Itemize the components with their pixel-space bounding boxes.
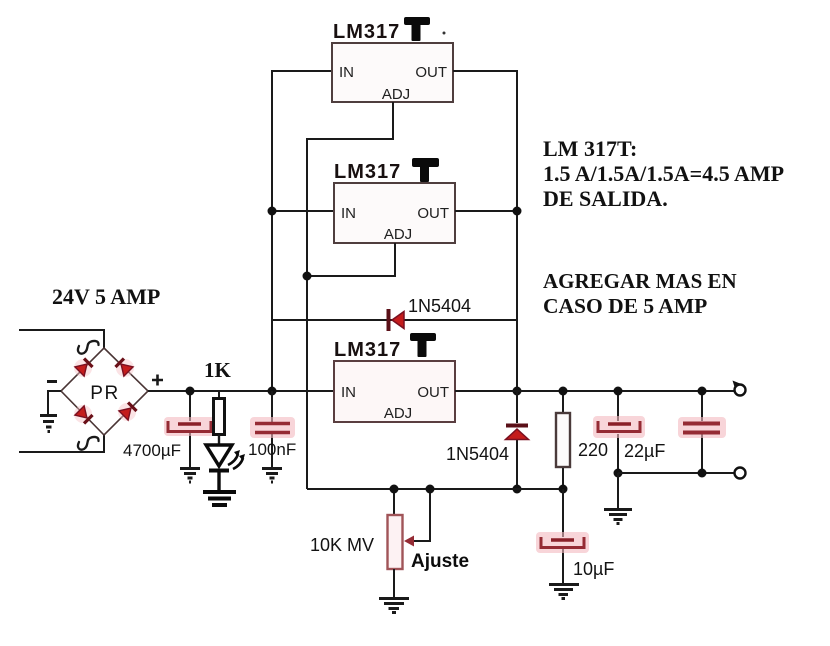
diode D7 1N5404 (OUT to ADJ) wire: [516, 391, 518, 489]
svg-text:ADJ: ADJ: [382, 86, 410, 103]
svg-text:OUT: OUT: [417, 205, 449, 222]
svg-text:AGREGAR MAS EN: AGREGAR MAS EN: [543, 269, 737, 293]
wire output line: [455, 390, 734, 392]
wire IN branch to U2: [272, 210, 334, 212]
junction R2 top: [559, 387, 568, 396]
capacitor C3 22uF halo: [593, 416, 645, 438]
svg-text:IN: IN: [339, 64, 354, 81]
ground (C1): [180, 469, 200, 483]
wire ADJ bus: [307, 488, 563, 490]
junction C4 bottom: [698, 469, 707, 478]
output terminal minus: [735, 468, 746, 479]
svg-text:ADJ: ADJ: [384, 226, 412, 243]
bridge diode D4 (bottom-right arm): [114, 399, 139, 424]
capacitor C3 22uF wires: [617, 391, 619, 473]
wire bridge minus to ground: [48, 391, 61, 414]
LED D5 symbol: [206, 445, 232, 466]
potentiometer RV1 body: [388, 515, 403, 569]
capacitor C3 22uF symbol: [598, 421, 640, 432]
svg-text:IN: IN: [341, 205, 356, 222]
junction C4 top: [698, 387, 707, 396]
U2 package icon: [412, 158, 439, 182]
capacitor C1 4700uF halo: [164, 417, 215, 436]
svg-text:100nF: 100nF: [248, 440, 296, 459]
potentiometer RV1 wire top: [393, 489, 395, 515]
svg-text:4700µF: 4700µF: [123, 441, 181, 460]
svg-text:IN: IN: [341, 384, 356, 401]
U3 package icon: [410, 333, 436, 357]
LED light arrows: [228, 450, 245, 469]
bridge diode D2 (top-right arm): [112, 355, 137, 380]
ground (RV1): [379, 599, 409, 613]
ground (bridge minus): [40, 416, 57, 432]
capacitor C5 10uF halo: [536, 532, 589, 553]
junction R2 bottom / ADJ bus end: [559, 485, 568, 494]
resistor R1 1K drop: [218, 391, 220, 399]
wire OUT U2 to OUT rail: [455, 210, 517, 212]
resistor R1 1K body: [214, 399, 225, 435]
plus polarity mark: [152, 375, 163, 386]
resistor R2 220 body: [556, 413, 570, 467]
regulator U1 LM317 body: [332, 43, 453, 102]
svg-text:LM 317T:: LM 317T:: [543, 136, 637, 161]
bridge rectifier PR body: [61, 348, 148, 435]
svg-text:24V 5 AMP: 24V 5 AMP: [52, 284, 160, 309]
svg-text:1.5 A/1.5A/1.5A=4.5 AMP: 1.5 A/1.5A/1.5A=4.5 AMP: [543, 161, 784, 186]
diode D7 symbol: [506, 424, 528, 428]
wire bottom output line: [618, 472, 734, 474]
ground (LED, heavy): [203, 492, 236, 505]
ground (C5): [549, 585, 579, 599]
svg-text:LM317: LM317: [333, 21, 400, 43]
junction D7 / ADJ bus: [513, 485, 522, 494]
wire main input rail: [148, 390, 334, 392]
svg-text:OUT: OUT: [415, 64, 447, 81]
wiper arrowhead: [404, 536, 414, 547]
wire ADJ U2 to ADJ rail: [307, 243, 395, 276]
junction C3 bottom: [614, 469, 623, 478]
junction OUT rail / output line: [513, 387, 522, 396]
svg-text:1N5404: 1N5404: [446, 444, 509, 464]
svg-text:CASO DE 5 AMP: CASO DE 5 AMP: [543, 294, 707, 318]
wire protection diode row: [272, 319, 517, 321]
capacitor C5 10uF symbol: [541, 537, 584, 548]
AC squiggle top: [78, 341, 99, 354]
svg-text:10K MV: 10K MV: [310, 535, 374, 555]
regulator U2 LM317 body: [334, 183, 455, 243]
junction C1: [186, 387, 195, 396]
capacitor C1 4700uF drop wire: [189, 391, 191, 467]
svg-text:LM317: LM317: [334, 161, 401, 183]
wire AC input bottom: [19, 435, 104, 452]
svg-text:10µF: 10µF: [573, 559, 614, 579]
wire C3 to ground: [617, 473, 619, 508]
regulator U3 LM317 body: [334, 361, 455, 422]
wire AC input top: [19, 330, 104, 348]
wire pot to ground: [393, 569, 395, 597]
junction wiper / ADJ bus: [426, 485, 435, 494]
U1 package icon: [404, 17, 430, 41]
capacitor C2 100nF drop wire: [271, 391, 273, 467]
ground (C2): [262, 469, 282, 483]
junction C3 top: [614, 387, 623, 396]
capacitor C4 output wires: [701, 391, 703, 473]
svg-text:1N5404: 1N5404: [408, 296, 471, 316]
svg-text:220: 220: [578, 440, 608, 460]
junction IN rail / U2 branch: [268, 207, 277, 216]
svg-text:DE SALIDA.: DE SALIDA.: [543, 186, 668, 211]
svg-text:OUT: OUT: [417, 384, 449, 401]
output terminal plus: [733, 381, 741, 389]
wiper wire: [413, 489, 430, 541]
bridge diode D1 (top-left arm): [70, 355, 95, 380]
capacitor C2 100nF halo: [250, 417, 295, 438]
AC squiggle bottom: [78, 437, 99, 450]
capacitor C5 10uF wire: [562, 489, 564, 583]
svg-text:1K: 1K: [204, 358, 232, 382]
LED D5 wire: [218, 435, 220, 446]
svg-text:ADJ: ADJ: [384, 405, 412, 422]
resistor R2 220 wires: [562, 391, 564, 489]
minus polarity mark: [47, 380, 57, 383]
capacitor C2 100nF symbol: [255, 422, 290, 425]
junction IN rail / main rail: [268, 387, 277, 396]
wire ADJ U1 to ADJ rail: [307, 102, 393, 489]
svg-text:Ajuste: Ajuste: [411, 551, 469, 572]
svg-text:22µF: 22µF: [624, 441, 665, 461]
wire IN rail riser to U1: [272, 71, 332, 391]
ground (C3 / output minus): [604, 510, 632, 524]
bridge diode D3 (bottom-left arm): [70, 401, 95, 426]
diode D6 1N5404 (horizontal): [387, 309, 391, 331]
capacitor C1 4700uF symbol: [168, 421, 211, 432]
capacitor C4 halo: [678, 417, 726, 438]
wire OUT U1 to OUT rail: [453, 71, 517, 391]
junction OUT rail / U2: [513, 207, 522, 216]
capacitor C4 symbol: [683, 422, 720, 426]
junction pot top / ADJ bus: [390, 485, 399, 494]
svg-text:LM317: LM317: [334, 339, 401, 361]
svg-text:PR: PR: [90, 383, 119, 404]
junction ADJ rail / U2: [303, 272, 312, 281]
